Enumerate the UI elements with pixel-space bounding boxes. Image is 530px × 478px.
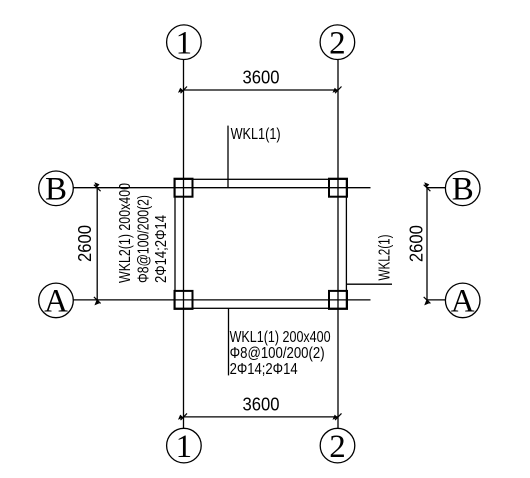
svg-text:3600: 3600 — [243, 394, 280, 414]
svg-text:1: 1 — [176, 26, 193, 62]
axis bubble 1 bottom — [167, 428, 202, 465]
svg-text:WKL1(1): WKL1(1) — [231, 126, 281, 143]
column at grid 1-A — [175, 291, 193, 309]
column at grid 2-A — [329, 291, 347, 309]
svg-text:Φ8@100/200(2): Φ8@100/200(2) — [136, 195, 153, 283]
leader line for WKL1 bottom annotation — [228, 308, 230, 375]
svg-text:2Φ14;2Φ14: 2Φ14;2Φ14 — [153, 215, 170, 283]
column at grid 1-B — [175, 179, 193, 197]
axis bubble 2 bottom — [320, 428, 355, 465]
grid line 2 (vertical axis) — [337, 60, 339, 429]
leader line for WKL1(1) top — [227, 126, 229, 188]
svg-text:Φ8@100/200(2): Φ8@100/200(2) — [230, 345, 325, 362]
dimension line 3600 top — [178, 68, 342, 94]
dimension line 3600 bottom — [178, 394, 342, 420]
grid line A (horizontal axis) — [73, 299, 370, 301]
grid line A right stub to bubble — [427, 299, 445, 301]
svg-text:2Φ14;2Φ14: 2Φ14;2Φ14 — [230, 361, 298, 378]
svg-text:2600: 2600 — [75, 225, 95, 262]
svg-text:2600: 2600 — [407, 225, 427, 262]
grid line B right stub to bubble — [427, 187, 445, 189]
svg-text:WKL2(1): WKL2(1) — [377, 235, 394, 281]
svg-text:A: A — [44, 284, 68, 320]
dimension line 2600 left — [75, 182, 101, 305]
axis bubble A left — [39, 283, 74, 320]
svg-text:WKL1(1) 200x400: WKL1(1) 200x400 — [230, 329, 331, 346]
svg-text:B: B — [452, 172, 474, 208]
axis bubble A right — [445, 283, 480, 320]
svg-text:WKL2(1) 200x400: WKL2(1) 200x400 — [117, 183, 134, 283]
svg-text:A: A — [451, 284, 475, 320]
grid line B (horizontal axis) — [73, 187, 370, 189]
axis bubble 2 top — [320, 25, 355, 62]
axis bubble B right — [445, 171, 480, 208]
grid line 1 (vertical axis) — [183, 60, 185, 429]
column at grid 2-B — [329, 179, 347, 197]
svg-text:3600: 3600 — [243, 68, 280, 88]
dimension line 2600 right — [407, 182, 431, 305]
svg-text:2: 2 — [329, 429, 346, 465]
axis bubble B left — [39, 171, 74, 208]
svg-text:B: B — [45, 172, 67, 208]
svg-text:2: 2 — [329, 26, 346, 62]
leader line for WKL2(1) right — [346, 283, 392, 285]
svg-text:1: 1 — [176, 429, 193, 465]
beam outline rectangle (outer faces of WKL beams) — [175, 179, 346, 308]
axis bubble 1 top — [167, 25, 202, 62]
